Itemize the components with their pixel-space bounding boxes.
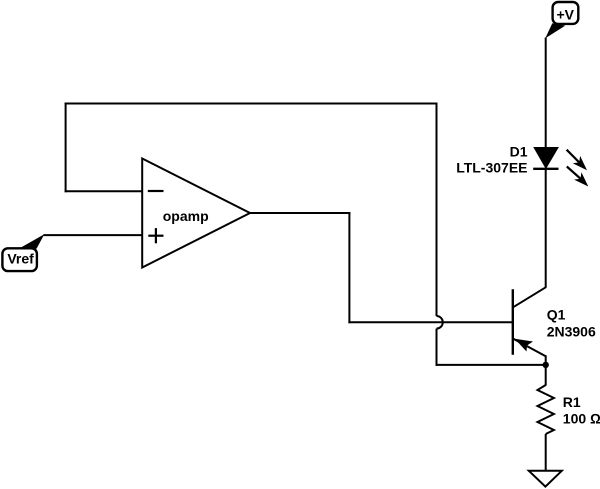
svg-text:2N3906: 2N3906	[547, 324, 596, 340]
transistor Q1	[512, 287, 596, 365]
wire hop over base wire	[437, 316, 443, 329]
wire: +V supply down to LED anode	[545, 38, 547, 149]
wire: op-amp output horizontal	[250, 212, 350, 214]
svg-text:Q1: Q1	[547, 307, 566, 323]
wire: feedback vertical upper segment	[436, 103, 438, 317]
svg-text:100 Ω: 100 Ω	[563, 411, 600, 427]
op-amp U1	[142, 159, 250, 268]
node +V flag	[545, 2, 578, 38]
junction node at emitter	[543, 362, 549, 368]
svg-text:R1: R1	[563, 394, 581, 410]
wire: base wire to transistor	[348, 321, 512, 323]
wire: feedback to emitter node	[436, 364, 546, 366]
wire: inverting input to left rail	[65, 190, 143, 192]
wire: Vref to non-inverting input	[44, 234, 143, 236]
wire: resistor to ground	[545, 434, 547, 471]
wire: top horizontal feedback	[65, 103, 438, 105]
wire: LED cathode down to collector	[545, 168, 547, 288]
svg-text:LTL-307EE: LTL-307EE	[456, 160, 527, 176]
svg-text:Vref: Vref	[7, 250, 34, 266]
wire: left vertical of feedback loop	[65, 103, 67, 193]
ground	[529, 471, 562, 487]
svg-text:opamp: opamp	[163, 208, 209, 224]
wire: emitter node down to resistor	[545, 365, 547, 386]
svg-text:D1: D1	[510, 143, 528, 159]
wire: output vertical drop	[348, 212, 350, 323]
resistor R1	[538, 385, 600, 434]
svg-text:+V: +V	[556, 6, 574, 22]
LED D1	[456, 143, 588, 186]
wire: feedback vertical lower segment	[436, 329, 438, 366]
node Vref flag	[2, 234, 44, 271]
